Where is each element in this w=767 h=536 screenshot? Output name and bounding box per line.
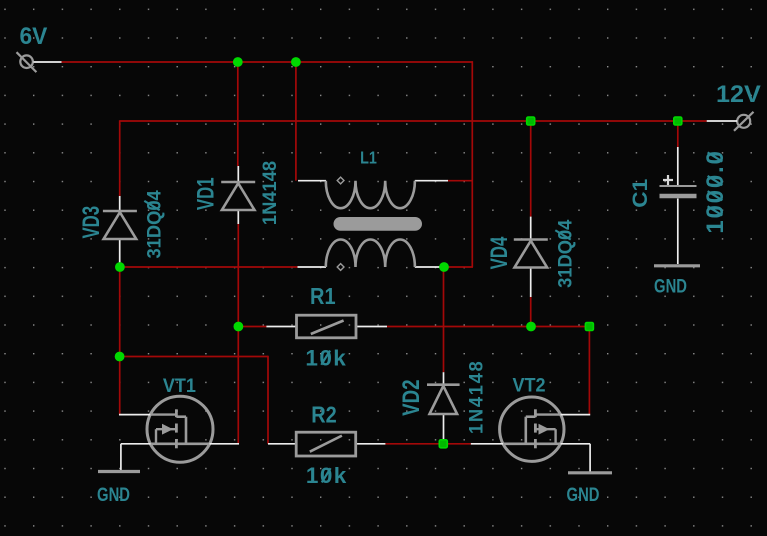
svg-text:GND: GND (97, 484, 130, 505)
label VD2 (398, 379, 425, 415)
svg-text:GND: GND (654, 276, 687, 297)
wire R1 left (238, 326, 266, 328)
diode VD3 31DQ04 (103, 196, 137, 267)
label GND (VT2) (567, 484, 600, 505)
svg-text:R2: R2 (311, 401, 337, 428)
resistor R2 10k (268, 432, 385, 456)
junction dot R1/VD4 (526, 322, 536, 332)
svg-text:VD4: VD4 (486, 236, 513, 269)
svg-text:12V: 12V (716, 81, 761, 107)
transistor VT1 (MOSFET) (147, 396, 213, 462)
junction square R1 run/VT2 gate (585, 323, 593, 331)
wire R2 right to VD2 junction (385, 443, 443, 445)
wire L1 top-right to 6V corner (448, 180, 473, 182)
wire VT2 left lead (471, 443, 503, 445)
label VD4 (486, 236, 513, 269)
svg-text:C1: C1 (628, 179, 652, 208)
ground GND (VT1) (98, 470, 140, 473)
svg-text:VD1: VD1 (193, 177, 220, 210)
diode VD2 1N4148 (427, 372, 460, 440)
wire branch L1 top-left from 6V rail (295, 62, 297, 181)
resistor R1 10k (266, 315, 387, 338)
ground GND (VT2) (568, 471, 612, 474)
label R1 (310, 282, 336, 309)
wire VD3 junction down (119, 267, 121, 415)
svg-text:L1: L1 (360, 148, 377, 168)
wire VT1 gate lead (119, 414, 150, 416)
svg-text:31DQ04: 31DQ04 (555, 219, 577, 288)
value 10k (R1) (305, 345, 347, 370)
label 6V (20, 22, 48, 49)
label R2 (311, 401, 337, 428)
wire 12V horizontal rail (120, 120, 707, 122)
wire branch VD1 from 6V rail (237, 62, 239, 166)
wire VD4 branch from rail (530, 121, 532, 217)
wire VT1 source lead left + GND drop (121, 444, 151, 471)
label GND (C1) (654, 276, 687, 297)
wire rail corner down to VD3 (119, 120, 121, 196)
wire VT1 right lead to riser (210, 443, 240, 445)
transistor VT2 (MOSFET) (500, 397, 564, 461)
svg-text:GND: GND (567, 484, 600, 505)
svg-text:R1: R1 (310, 282, 336, 309)
wire L1 bottom junction down to VD2 (443, 267, 445, 372)
wire 6V rail (62, 61, 473, 63)
value 1N4148 (VD2) (466, 360, 488, 434)
junction square rail/C1 (674, 117, 682, 125)
value 10k (R2) (306, 463, 348, 488)
wire VT2 gate lead (561, 414, 591, 416)
port 12V (707, 112, 754, 131)
wire R2 branch down (267, 356, 269, 444)
capacitor C1 1000.0 (660, 147, 697, 264)
junction dot R2 branch (115, 352, 125, 362)
label VD1 (193, 177, 220, 210)
svg-text:31DQ04: 31DQ04 (144, 190, 166, 259)
junction square rail/VD4 (527, 117, 535, 125)
value 1N4148 (VD1) (260, 161, 282, 225)
wire VD4 bottom to R1 run (530, 297, 532, 327)
port 6V (17, 52, 62, 72)
label VD3 (78, 206, 105, 239)
junction dot VD3 bottom (115, 262, 125, 272)
label C1 (628, 179, 652, 208)
inductor/transformer L1 (298, 177, 449, 270)
wire VT2 gate riser (588, 326, 590, 415)
value 31DQ04 (VD3) (144, 190, 166, 259)
value 1000.0 (C1) (702, 149, 729, 233)
diode VD4 31DQ04 (514, 217, 548, 297)
wire to L1 bottom-right junction (444, 266, 473, 268)
junction dot 6V/VD1 (233, 57, 243, 67)
ground GND (C1) (654, 264, 700, 267)
label VT1 (163, 374, 196, 396)
label VT2 (512, 374, 545, 396)
wire VD2 junction to VT2 (443, 443, 471, 445)
label 12V (716, 81, 761, 107)
label L1 (360, 148, 377, 168)
wire VT2 source lead right + GND drop (561, 444, 591, 472)
svg-text:VT2: VT2 (512, 374, 545, 396)
wire VD3 bottom to L1 bottom-left (120, 266, 298, 268)
wire 6V rail corner down at x=472 (471, 61, 473, 267)
wire horizontal to R2 branch (120, 356, 268, 358)
svg-text:VD2: VD2 (398, 379, 425, 415)
svg-text:VD3: VD3 (78, 206, 105, 239)
svg-text:1N4148: 1N4148 (260, 161, 282, 225)
wire R1 right run (387, 326, 589, 328)
wire C1 branch from rail (677, 121, 679, 147)
junction dot R1 left (234, 322, 244, 332)
svg-text:VT1: VT1 (163, 374, 196, 396)
junction dot 6V/L1 (291, 57, 301, 67)
wire VD1 bottom to R1 left and down to VT1 (237, 224, 239, 444)
junction dot L1 bottom-right (439, 262, 449, 272)
junction square VD2 bottom (439, 440, 447, 448)
label GND (VT1) (97, 484, 130, 505)
diode VD1 1N4148 (221, 166, 255, 224)
svg-text:1N4148: 1N4148 (466, 360, 488, 434)
svg-text:1000.0: 1000.0 (702, 149, 729, 233)
svg-text:6V: 6V (20, 22, 48, 49)
value 31DQ04 (VD4) (555, 219, 577, 288)
